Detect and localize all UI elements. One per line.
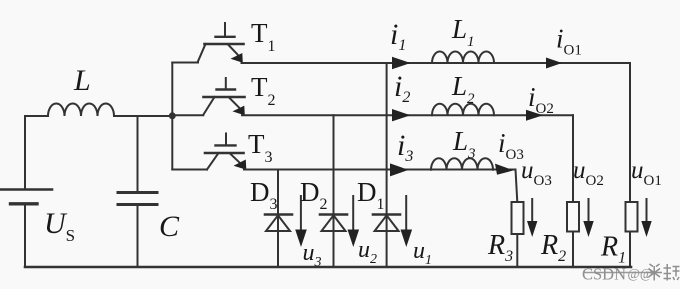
svg-text:iO1: iO1 (556, 24, 582, 59)
wire phase 2 line (242, 114, 573, 116)
wire battery bottom to bottom rail (24, 204, 26, 267)
wire phase3 down to R3 (516, 170, 518, 268)
svg-text:D3: D3 (250, 177, 278, 213)
svg-text:@@: @@ (628, 266, 653, 281)
diode D3 triangle (266, 215, 290, 231)
transistor T2 gate bar (217, 88, 236, 90)
capacitor C bottom plate (118, 203, 157, 206)
voltage arrow u1 (405, 196, 407, 233)
voltage arrow u3 (300, 196, 302, 233)
svg-text:L1: L1 (451, 14, 475, 50)
svg-text:T2: T2 (251, 72, 276, 109)
wire node to T1 input (172, 62, 198, 64)
transistor T2 emitter arrowhead (233, 106, 245, 116)
wire phase1 down to R1 (629, 63, 631, 267)
inductor L1 (432, 52, 494, 64)
inductor L2 (432, 104, 494, 116)
capacitor C bottom wire (137, 205, 139, 268)
diode D1 cathode bar (373, 213, 400, 216)
transistor T1 gate lead (224, 23, 226, 37)
current arrow iO1 (546, 58, 562, 69)
node A junction dot (169, 112, 176, 119)
svg-text:u3: u3 (303, 240, 322, 270)
wire phase 1 line (242, 62, 631, 64)
svg-text:D1: D1 (357, 177, 385, 213)
svg-text:i2: i2 (394, 70, 410, 106)
diode D1 triangle (375, 215, 399, 231)
current arrow i1 (392, 57, 411, 69)
transistor T3 emitter line (231, 154, 241, 163)
svg-text:T3: T3 (248, 129, 273, 166)
svg-text:R2: R2 (540, 230, 566, 265)
svg-text:R3: R3 (487, 230, 513, 265)
diode D3 cathode bar (265, 213, 292, 216)
voltage arrow u2 (352, 196, 354, 233)
svg-text:uO1: uO1 (631, 157, 662, 189)
wire node A vertical bus to T1 and T3 (171, 63, 173, 170)
transistor T2 gate lead (225, 78, 227, 90)
inductor L3 (431, 158, 493, 170)
diode D2 wire (333, 115, 335, 267)
svg-text:CSDN: CSDN (582, 265, 626, 284)
current arrow iO3 (495, 164, 514, 175)
diode D2 cathode bar (320, 213, 347, 216)
wire node to T2 input (172, 114, 203, 116)
svg-text:R1: R1 (600, 232, 626, 267)
current arrow i2 (392, 109, 411, 121)
svg-text:i1: i1 (390, 18, 406, 54)
battery Us bottom plate (11, 202, 38, 205)
resistor R2 body (567, 202, 579, 232)
voltage arrow uO2 (588, 199, 590, 224)
transistor T1 emitter line (229, 45, 238, 55)
inductor L (48, 104, 114, 117)
battery Us top plate (0, 188, 52, 191)
transistor T3 gate bar (216, 144, 236, 146)
svg-text:u1: u1 (413, 238, 432, 268)
diode D1 wire (386, 63, 388, 267)
transistor T3 collector line (207, 153, 219, 170)
wire battery top to main rail (24, 116, 26, 190)
svg-text:T1: T1 (251, 18, 276, 55)
watermark glyph hu (664, 264, 680, 281)
transistor T3 gate lead (225, 134, 227, 146)
wire node to T3 input (172, 169, 207, 171)
transistor T2 collector line (203, 97, 214, 115)
transistor T1 bar (205, 43, 244, 46)
wire phase2 down to R2 (572, 115, 574, 267)
current arrow iO2 (526, 110, 543, 121)
svg-text:L2: L2 (451, 71, 475, 107)
capacitor C top plate (118, 191, 157, 194)
diode D2 triangle (322, 215, 346, 231)
svg-text:u2: u2 (358, 237, 377, 267)
svg-text:L: L (73, 64, 91, 97)
transistor T1 gate bar (216, 36, 235, 38)
svg-text:iO3: iO3 (498, 128, 524, 163)
resistor R3 body (512, 202, 524, 234)
svg-text:C: C (159, 210, 180, 243)
transistor T2 bar (204, 96, 245, 99)
svg-text:L3: L3 (452, 126, 476, 162)
svg-text:i3: i3 (397, 129, 413, 165)
bottom rail wire (25, 266, 631, 269)
transistor T2 emitter line (230, 98, 240, 108)
wire inductor L to node A (114, 115, 172, 117)
voltage arrow uO3 (531, 199, 533, 224)
voltage arrow uO1 (646, 199, 648, 224)
watermark glyph mi (647, 264, 663, 281)
current arrow i3 (390, 163, 409, 176)
diode D3 wire (277, 170, 279, 268)
transistor T3 bar (205, 152, 244, 155)
wire phase 3 line (244, 169, 516, 171)
svg-text:iO2: iO2 (528, 82, 554, 117)
resistor R1 body (626, 202, 638, 232)
svg-text:D2: D2 (300, 177, 328, 213)
svg-text:uO3: uO3 (521, 157, 552, 189)
transistor T1 collector line (198, 44, 206, 62)
wire left horizontal to inductor L (25, 115, 48, 117)
capacitor C top wire (137, 116, 139, 193)
transistor T3 emitter arrowhead (234, 160, 247, 170)
svg-text:US: US (44, 207, 75, 245)
svg-text:uO2: uO2 (573, 157, 604, 189)
watermark strikethrough line (584, 272, 647, 274)
transistor T1 emitter arrowhead (231, 53, 243, 63)
